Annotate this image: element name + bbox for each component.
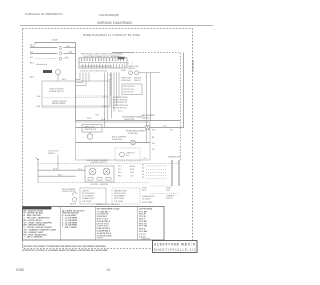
svg-text:MOTOR: MOTOR [70,204,77,206]
harness wire 5 [104,73,106,128]
svg-text:LF-W: LF-W [130,172,135,174]
svg-text:WIRING DIAGRAM: WIRING DIAGRAM [97,20,132,25]
svg-text:RIGHT REAR: RIGHT REAR [142,201,153,204]
riser bottom labels [142,188,175,204]
svg-text:N-LK . . . .: N-LK . . . . [118,110,126,112]
svg-text:6 IN 1200W: 6 IN 1200W [114,201,123,203]
svg-text:RR SURFACE: RR SURFACE [114,195,126,198]
svg-text:N-1: N-1 [170,130,173,132]
svg-text:P8 8 V: P8 8 V [139,228,146,230]
svg-text:318047408 REV:0: 318047408 REV:0 [154,243,195,247]
wire from contact C [64,58,71,60]
svg-text:FGLD2945QB: FGLD2945QB [99,13,119,17]
svg-text:10: 10 [107,268,111,272]
svg-text:Publication No 5995442717: Publication No 5995442717 [25,12,63,16]
limiter rows [82,190,95,202]
svg-text:318047408: 318047408 [141,238,150,240]
wire L1 feed [35,43,76,45]
oven cavity box [76,122,151,160]
wire motor drop [57,75,59,82]
svg-text:N-1: N-1 [152,149,155,151]
lamp drop wire 1 [146,73,148,143]
wire to lock switch [30,47,57,49]
harness wire 7 [110,73,112,97]
svg-text:L2-1: L2-1 [143,158,146,160]
wire from contact B [64,53,76,55]
svg-text:8 IN 2100W: 8 IN 2100W [82,201,91,203]
connector lower pins [83,64,125,67]
svg-text:WIRE DIAGRAM L1 CONSULT BL PIN: WIRE DIAGRAM L1 CONSULT BL PINK [83,33,140,37]
diagram dashed border [23,29,193,249]
relay rows [124,85,136,94]
dashed tie wire [76,95,104,97]
svg-text:1 2 3 4 5 6 7 8 9 0 1 2 3 4 5: 1 2 3 4 5 6 7 8 9 0 1 2 3 4 5 [81,63,133,65]
legend column rule 2 [95,206,97,240]
svg-text:K3: K3 [142,171,144,173]
node dot [37,159,38,160]
svg-text:UNLOCK N.C.: UNLOCK N.C. [124,92,135,94]
svg-text:22-BU: 22-BU [121,70,127,72]
console wire solid [112,52,133,54]
neutral run wire [38,175,76,177]
svg-text:MOTOR SW LK-2: MOTOR SW LK-2 [113,108,127,110]
legend header band [22,207,51,210]
limiter box left [80,188,106,204]
riser arrowheads [171,160,180,162]
knob 2 cross [104,169,109,174]
header rule [20,24,213,26]
oven light labels [121,77,141,82]
wire tag column [109,70,127,81]
svg-text:POWER SUPPLY: POWER SUPPLY [49,91,65,93]
broil element wire [76,142,151,144]
harness wire 3 [76,73,86,86]
right harness labels [118,166,136,178]
limiter right rows [114,189,128,202]
L1 riser wire [37,160,39,183]
harness wire 9 [113,73,115,113]
legend column rule 1 [60,206,62,240]
surface unit riser 2 [178,160,180,186]
switch contact SW-A [59,46,62,49]
svg-text:DOOR LOCK SW: DOOR LOCK SW [62,191,76,193]
svg-text:L2-1: L2-1 [78,168,82,170]
svg-text:1A-BK: 1A-BK [52,39,58,42]
harness wire 8 [111,73,113,119]
svg-text:* - 200 C WIRE: * - 200 C WIRE [62,227,77,229]
part number box [153,241,198,253]
svg-text:SURFACE UNIT: SURFACE UNIT [142,195,154,198]
dashed row labels [142,164,144,179]
svg-text:W-2: W-2 [152,143,155,145]
svg-text:L2-A: L2-A [68,50,73,53]
door lock stem wire [57,155,59,171]
svg-text:LIGHT SWITCH: LIGHT SWITCH [84,129,97,131]
svg-text:K2: K2 [142,168,144,170]
oven control board box [42,81,110,107]
svg-text:41: 41 [109,79,111,81]
svg-text:30 SYSTEM CONNECTOR P1 TERMINA: 30 SYSTEM CONNECTOR P1 TERMINALS [83,55,121,58]
svg-text:T - TAN / CHAMOIS: T - TAN / CHAMOIS [24,236,44,239]
broil element E2 [131,140,136,145]
harness wire 2 [76,73,83,83]
svg-text:WIRING CODE DES FILS: WIRING CODE DES FILS [96,204,120,206]
svg-text:ATTENTION: COUPER LE COURANT A: ATTENTION: COUPER LE COURANT AVANT DE FA… [22,249,108,252]
svg-text:P4-2: P4-2 [118,169,122,171]
wire from contact [64,47,76,49]
svg-text:2-BK 52-V: 2-BK 52-V [142,118,151,120]
riser bottom ties [150,185,172,187]
oven TOD dashed box [115,148,140,161]
oven lamp 1 [129,71,133,75]
harness wire 1 [76,73,80,80]
svg-text:SURFACE UNIT: SURFACE UNIT [82,197,94,200]
svg-text:10-3: 10-3 [95,115,99,117]
svg-text:RF-BK: RF-BK [130,166,136,168]
legend column rule 3 [137,206,139,240]
door lock motor circle [72,197,76,201]
legend wire color column [24,209,57,238]
svg-text:P4-4: P4-4 [118,175,122,177]
svg-text:E30B: E30B [16,268,24,272]
door switch box [82,125,102,133]
svg-text:L1: L1 [35,157,37,159]
svg-text:LR 1200W: LR 1200W [142,199,150,201]
right riser wire [75,43,77,123]
svg-text:RELAY BOARD: RELAY BOARD [52,102,66,105]
svg-text:L2-1: L2-1 [163,126,167,128]
svg-text:3400W 240V: 3400W 240V [112,139,123,141]
cavity tag column [143,137,155,160]
dashed rows right [146,166,166,179]
svg-text:31: 31 [109,75,111,77]
svg-text:1 3 1-2: 1 3 1-2 [139,234,146,236]
bake element wire [76,127,184,129]
svg-text:P7 7 OR: P7 7 OR [139,226,148,228]
harness wire 6 [107,73,109,122]
surface unit riser 1 [171,160,173,186]
svg-text:BK R W OR BU GY V T PK WH BR Y: BK R W OR BU GY V T PK WH BR Y GN [81,66,113,68]
svg-text:N.C.: N.C. [126,155,130,157]
connector mid rule [79,62,127,64]
legend gauge column [62,209,85,229]
svg-text:318047408: 318047408 [192,59,195,72]
svg-text:1 3 1 2: 1 3 1 2 [97,238,104,240]
junction labels [152,126,173,132]
control knob 1 [89,168,96,175]
board dashed row 1 [43,97,109,99]
svg-text:40W 4-R: 40W 4-R [134,80,141,82]
legend table frame [23,207,165,241]
svg-text:12 31 22 41 52 61 72 81 92 14: 12 31 22 41 52 61 72 81 92 14 25 36 [80,71,108,73]
lock motor M1 [56,70,61,75]
svg-text:SWITCH: SWITCH [48,153,56,155]
TOD switch [120,152,125,157]
convection fan motor M2 [87,134,93,140]
svg-text:SURFACE: SURFACE [166,194,175,197]
lock motor label [43,70,52,73]
connector pins [82,58,124,61]
svg-text:W-31: W-31 [87,118,91,120]
long dashed wire [38,163,180,165]
dashed wire to contact C [35,58,57,60]
svg-text:CONTROL - INFINITE: CONTROL - INFINITE [90,184,109,186]
element control body [85,166,114,182]
stub wire BL [36,63,47,65]
switch arc door lock [72,193,78,196]
harness wire 4 [88,73,90,82]
console boundary dashed [133,53,181,161]
lamp wire [139,72,161,74]
board dashed row 2 [43,105,109,107]
switch contact SW-C [59,57,62,60]
neutral riser wire [183,53,185,129]
svg-text:SWITCH: SWITCH [128,68,136,70]
svg-text:K5: K5 [142,177,144,179]
oven lamp 2 [135,71,139,75]
svg-text:SW TERM WIRE CODE: SW TERM WIRE CODE [97,209,120,211]
svg-text:P4-3: P4-3 [118,172,122,174]
svg-text:P4-1: P4-1 [118,166,122,168]
EOC connector body P1 [79,58,127,68]
svg-text:CN PIN WIRE: CN PIN WIRE [139,209,153,211]
svg-text:CONTROL SWITCH: CONTROL SWITCH [90,162,107,164]
sensor tag rows [113,96,128,104]
dashed run wire [38,182,150,184]
tag on console wire [118,57,125,59]
svg-text:CAUTION: DISCONNECT POWER BEFO: CAUTION: DISCONNECT POWER BEFORE SERVICI… [22,245,107,248]
svg-text:SURFACE UNIT: SURFACE UNIT [168,155,180,158]
legend terminal column [97,209,120,240]
bake element E1 [145,125,150,130]
svg-text:K1: K1 [142,164,144,166]
control terminals [88,178,93,181]
control knob 2 [103,168,110,175]
wire to contact B [30,53,57,55]
knob 1 cross [90,169,95,174]
L1 run wire [38,169,85,171]
fan motor stem [89,132,91,134]
svg-text:BK-1: BK-1 [62,79,66,81]
svg-text:OVEN LIGHT: OVEN LIGHT [121,80,131,82]
harness wire 10 [116,73,118,107]
lamp drop wire 2 [150,73,152,121]
svg-text:K4: K4 [142,174,144,176]
harness wire 11 [118,73,120,99]
svg-text:SHEET/FEUILLE:1/2: SHEET/FEUILLE:1/2 [154,248,196,252]
door latch labels [113,104,129,112]
switch contact SW-B [59,52,62,55]
legend right column [139,209,153,239]
light relay box [122,84,142,95]
svg-text:W-10: W-10 [142,190,146,192]
upper oven wire [76,120,181,122]
svg-text:2500W 240V: 2500W 240V [128,133,139,135]
svg-text:MOTOR COM: MOTOR COM [124,89,135,91]
svg-text:RTD PROBE GY-1: RTD PROBE GY-1 [113,102,127,104]
limiter box right [112,188,140,204]
svg-text:P9 9 BR: P9 9 BR [139,231,147,233]
svg-text:UNIT RT: UNIT RT [166,198,173,200]
svg-text:W-2: W-2 [152,130,155,132]
svg-text:WARMER ZONE: WARMER ZONE [114,189,128,192]
